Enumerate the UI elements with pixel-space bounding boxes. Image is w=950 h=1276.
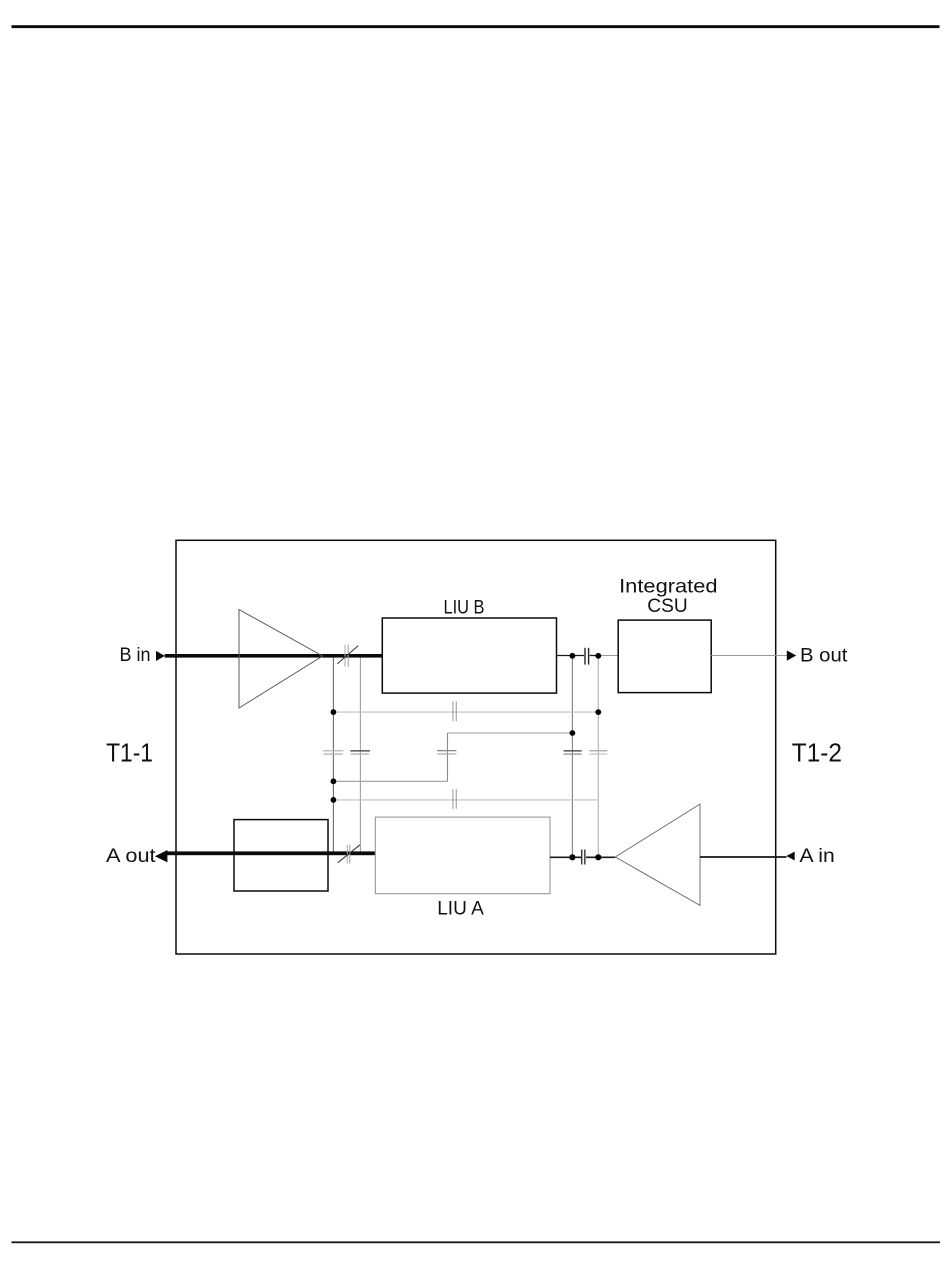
svg-text:A out: A out [106,845,156,867]
svg-text:T1-1: T1-1 [106,738,153,768]
svg-text:T1-2: T1-2 [792,738,842,768]
svg-text:A in: A in [800,845,835,867]
svg-text:LIU A: LIU A [437,898,484,920]
svg-text:LIU B: LIU B [444,596,485,618]
svg-text:B in: B in [120,644,151,666]
svg-text:B out: B out [800,645,848,667]
svg-text:CSU: CSU [647,595,687,617]
